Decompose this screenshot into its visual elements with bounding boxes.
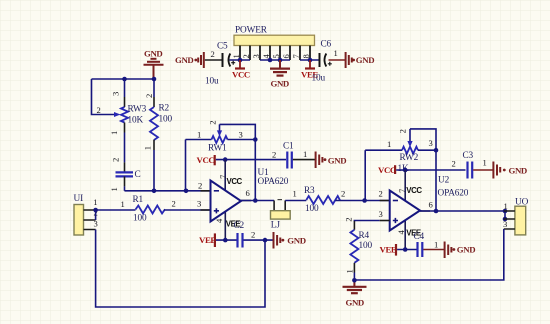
wire U2 output to UO: [420, 210, 504, 212]
ground symbol right of C1: [316, 152, 347, 169]
svg-text:GND: GND: [346, 298, 364, 308]
capacitor C4: [414, 232, 439, 257]
svg-text:VCC: VCC: [197, 155, 215, 165]
junction R2 top: [152, 77, 157, 82]
wire RW2 pin1 to U2 inverting node: [364, 150, 366, 200]
svg-text:4: 4: [261, 54, 271, 59]
svg-text:10K: 10K: [128, 116, 144, 126]
wire R3 to U2 pin2: [335, 200, 389, 202]
wire POWER pins 3-6: [260, 59, 290, 61]
junction R2 bottom: [152, 189, 157, 194]
junction U2 output / RW2 loop: [434, 209, 439, 214]
svg-text:100: 100: [305, 204, 319, 214]
wire R1 to U1 pin3: [164, 209, 211, 211]
capacitor C2: [234, 221, 256, 248]
svg-text:GND: GND: [287, 235, 305, 245]
svg-text:7: 7: [291, 54, 301, 59]
svg-text:6: 6: [246, 188, 251, 198]
wire UI to R1: [96, 209, 136, 211]
svg-text:C: C: [135, 170, 141, 180]
svg-text:1: 1: [197, 130, 201, 140]
svg-text:GND: GND: [144, 49, 162, 59]
svg-text:C6: C6: [321, 40, 332, 50]
resistor R1 100: [121, 195, 176, 224]
svg-text:2: 2: [198, 181, 202, 191]
svg-text:R3: R3: [304, 186, 315, 196]
wire UI pin3 to bottom rail: [96, 230, 265, 308]
svg-text:3: 3: [429, 138, 433, 148]
svg-text:POWER: POWER: [235, 26, 268, 36]
svg-text:1: 1: [334, 48, 338, 58]
wire RW1 wiper loop: [220, 124, 256, 200]
svg-text:1: 1: [93, 197, 97, 207]
svg-text:1: 1: [344, 269, 354, 273]
wire VCC rail U2: [396, 169, 465, 171]
wire U2 pin3 to R4: [354, 221, 379, 222]
junction R4 bottom: [352, 278, 357, 283]
svg-text:1: 1: [143, 146, 153, 150]
svg-text:2: 2: [144, 94, 154, 98]
svg-text:LJ: LJ: [271, 221, 281, 231]
svg-text:R2: R2: [159, 104, 170, 114]
svg-text:2: 2: [97, 105, 101, 115]
svg-text:1: 1: [434, 240, 438, 250]
junction at POWER pin 4: [268, 58, 273, 63]
potentiometer RW2 1K: [365, 129, 436, 174]
wire top-left node (GND to RW3/R2): [92, 78, 155, 80]
potentiometer RW1: [186, 120, 256, 153]
junction RW2 feedback: [362, 198, 367, 203]
wire RW2 wiper loop: [410, 129, 436, 211]
resistor R4 100: [343, 217, 372, 280]
svg-text:RW2: RW2: [400, 153, 419, 163]
svg-text:RW3: RW3: [128, 105, 147, 115]
wire UO pin3 to R4 ground rail: [354, 229, 503, 280]
svg-text:4: 4: [214, 218, 224, 223]
wire POWER pins 7-8 to C6: [300, 59, 319, 61]
svg-text:RW1: RW1: [208, 144, 227, 154]
junction RW2 pin3: [434, 148, 439, 153]
ground symbol right of C3: [493, 162, 526, 179]
svg-text:2: 2: [379, 189, 383, 199]
svg-text:1: 1: [303, 149, 307, 159]
junction at POWER pin 1: [238, 58, 243, 63]
capacitor C5 10u: [205, 42, 235, 87]
svg-text:C3: C3: [463, 151, 474, 161]
svg-text:GND: GND: [328, 156, 346, 166]
junction UI pin1: [93, 208, 98, 213]
connector UI: [74, 194, 98, 235]
junction U1 pin7: [223, 157, 228, 162]
svg-text:OPA620: OPA620: [438, 189, 469, 199]
svg-text:2: 2: [241, 54, 251, 58]
wire C5 to POWER pins 1-2: [230, 59, 251, 61]
svg-text:2: 2: [172, 199, 176, 209]
svg-text:C2: C2: [234, 221, 245, 231]
svg-text:2: 2: [452, 159, 456, 169]
svg-text:GND: GND: [356, 55, 374, 65]
svg-text:4: 4: [396, 230, 406, 235]
svg-text:C4: C4: [414, 232, 425, 242]
wire down-left to RW3 wiper: [92, 79, 115, 115]
jumper LJ: [271, 200, 291, 231]
ground symbol right of C4: [445, 242, 476, 259]
svg-text:3: 3: [197, 199, 201, 209]
svg-text:100: 100: [359, 241, 373, 251]
svg-text:6: 6: [429, 200, 434, 210]
svg-text:2: 2: [343, 217, 353, 221]
svg-text:VCC: VCC: [406, 186, 422, 195]
svg-text:1: 1: [483, 158, 487, 168]
ground symbol under POWER pins 3-6: [270, 60, 290, 89]
capacitor C1: [272, 142, 315, 169]
wire LJ to R3: [285, 200, 306, 202]
junction UO pin2: [503, 217, 508, 222]
svg-text:3: 3: [379, 209, 383, 219]
wire VEE rail U1: [216, 239, 238, 241]
junction RW1 feedback: [184, 189, 189, 194]
svg-text:100: 100: [159, 115, 173, 125]
wire VEE rail U2: [397, 249, 417, 251]
svg-text:1: 1: [109, 131, 119, 135]
wire UI pins 1-2 tie: [95, 210, 97, 220]
svg-text:U2: U2: [438, 176, 450, 186]
svg-text:2: 2: [211, 49, 215, 59]
power port VEE at U1: [199, 233, 216, 247]
svg-text:C1: C1: [283, 142, 294, 152]
svg-text:2: 2: [207, 120, 217, 124]
resistor R3 100: [293, 186, 346, 214]
junction RW3 pin3: [122, 77, 127, 82]
capacitor C: [109, 158, 140, 192]
svg-text:10u: 10u: [205, 77, 219, 87]
svg-text:3: 3: [239, 130, 243, 140]
ground symbol top-left: [144, 49, 164, 80]
ground symbol right of C6: [346, 52, 375, 68]
resistor R2 100: [143, 79, 173, 191]
capacitor C6 10u: [312, 40, 346, 84]
svg-text:6: 6: [281, 54, 291, 59]
wire U1 output: [241, 200, 274, 202]
capacitor C3: [452, 151, 494, 179]
svg-text:10u: 10u: [312, 74, 326, 84]
junction at POWER pin 5: [278, 58, 283, 63]
svg-text:VCC: VCC: [232, 70, 250, 80]
op-amp U1 OPA620: [198, 160, 289, 241]
svg-text:2: 2: [111, 158, 121, 162]
power port VEE at U2: [380, 244, 397, 256]
svg-text:1: 1: [121, 199, 125, 209]
svg-text:1: 1: [293, 189, 297, 199]
junction U2 pin4: [403, 247, 408, 252]
power port VCC at U2: [378, 165, 396, 175]
wire inverting node U1: [125, 190, 211, 192]
wire RW1 pin1 to inverting node: [185, 140, 187, 191]
connector UO: [503, 198, 529, 235]
svg-text:3: 3: [111, 92, 121, 96]
svg-text:OPA620: OPA620: [258, 177, 289, 187]
ground symbol left of C5: [175, 52, 204, 68]
svg-text:1: 1: [387, 139, 391, 149]
svg-text:GND: GND: [175, 55, 193, 65]
svg-text:R1: R1: [133, 195, 144, 205]
junction U2 pin7: [403, 168, 408, 173]
svg-text:VCC: VCC: [378, 165, 396, 175]
junction UO pin1: [503, 209, 508, 214]
svg-text:1: 1: [109, 187, 119, 191]
wire VCC rail U1: [216, 159, 286, 161]
svg-text:R4: R4: [359, 231, 370, 241]
junction at POWER pin 8: [308, 58, 313, 63]
junction U1 pin4: [223, 238, 228, 243]
potentiometer RW3 10K: [97, 79, 147, 172]
svg-text:VCC: VCC: [227, 177, 243, 186]
op-amp U2 OPA620: [379, 170, 469, 250]
power port VEE (POWER pins 7-8): [301, 60, 318, 80]
svg-text:UI: UI: [74, 194, 84, 204]
svg-text:3: 3: [503, 219, 507, 229]
power port VCC at U1: [197, 155, 215, 165]
wire UO pins 1-2 tie: [504, 211, 506, 219]
svg-text:1: 1: [504, 201, 508, 211]
svg-text:100: 100: [133, 214, 147, 224]
pin numbers 1-8 of POWER: [231, 54, 311, 59]
ground symbol below R4: [343, 281, 367, 308]
svg-text:VEE: VEE: [380, 244, 397, 254]
svg-text:3: 3: [251, 54, 261, 58]
svg-text:C5: C5: [217, 42, 228, 52]
junction U1 output / RW1 loop: [253, 198, 258, 203]
junction RW1 pin3: [253, 137, 258, 142]
junction C2 rail to bottom: [263, 238, 268, 243]
power port VCC (POWER pins 1-2): [232, 60, 250, 80]
ground symbol right of C2: [274, 232, 306, 249]
connector JP POWER: [234, 26, 315, 61]
svg-text:2: 2: [341, 189, 345, 199]
svg-text:2: 2: [251, 230, 255, 240]
svg-text:2: 2: [398, 129, 408, 133]
svg-text:GND: GND: [457, 245, 475, 255]
svg-text:GND: GND: [271, 79, 289, 89]
svg-text:2: 2: [272, 150, 276, 160]
svg-text:GND: GND: [509, 166, 527, 176]
